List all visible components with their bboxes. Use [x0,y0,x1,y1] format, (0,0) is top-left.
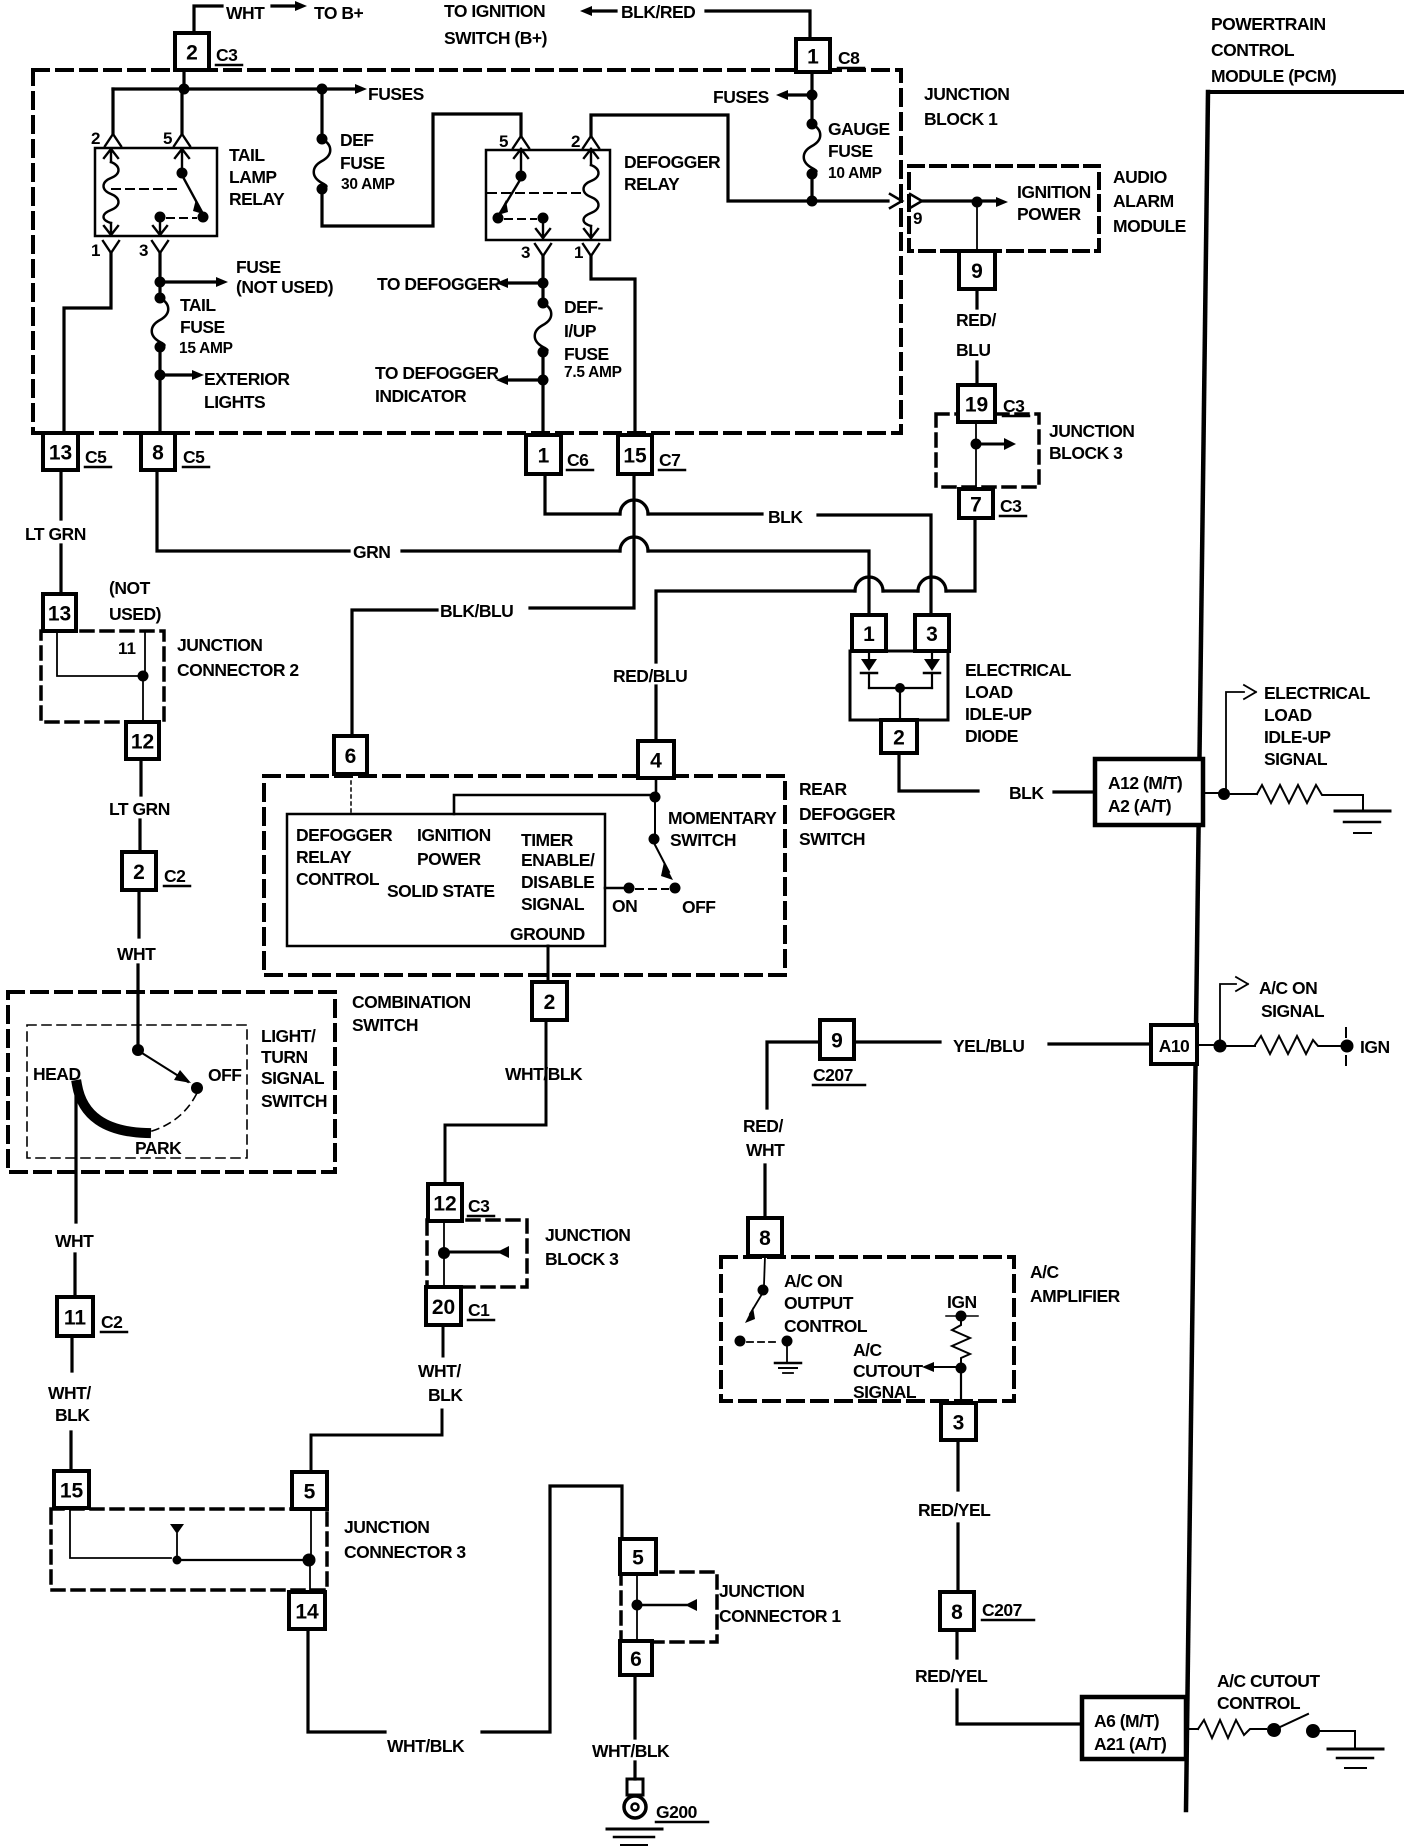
svg-text:JUNCTION: JUNCTION [1049,421,1134,441]
arrowhead BLK/RED to ignition switch [580,6,592,16]
diode 1 bar [861,672,877,675]
svg-text:BLU: BLU [956,340,990,360]
box 12 C3 [428,1184,462,1221]
a/c output pivot dot [758,1285,769,1296]
svg-text:2: 2 [186,42,198,65]
svg-text:C3: C3 [468,1196,490,1216]
diode 2 triangle [924,659,940,671]
svg-text:2: 2 [91,129,100,148]
ground idle-up bar3 [1354,832,1371,834]
svg-text:20: 20 [432,1296,455,1319]
a/c output switch arm [750,1294,762,1314]
svg-text:JUNCTION: JUNCTION [545,1225,630,1245]
arrowhead junction connector 1 [685,1599,697,1611]
diode pin 3 [915,615,949,651]
wire box2C3 drop [182,70,185,89]
diode 2 bar [924,672,940,675]
svg-text:1: 1 [574,243,583,262]
svg-text:ENABLE/: ENABLE/ [521,850,595,870]
svg-text:OUTPUT: OUTPUT [784,1293,854,1313]
defogger relay pin3 chevron [535,244,551,256]
rear defogger switch solid state box [287,814,605,946]
svg-text:FUSE: FUSE [564,344,609,364]
G200 ground bar2 [614,1836,654,1839]
wire BLK/BLU from 15C7 to box6 [352,474,634,736]
box 13 C5 [43,433,78,470]
junction block 3 lower dashed box [427,1220,527,1287]
svg-text:8: 8 [152,442,164,465]
svg-text:LOAD: LOAD [965,682,1013,702]
svg-text:CONTROL: CONTROL [1217,1693,1301,1713]
combination switch dashed box [8,992,335,1172]
rear defogger switch dashed box [264,776,785,975]
svg-text:POWER: POWER [1017,204,1081,224]
box 3 a/c amp [941,1403,976,1440]
node dot diode common [895,683,905,693]
svg-text:RELAY: RELAY [624,174,680,194]
svg-text:DEF: DEF [340,130,374,150]
box 15 JC3 [54,1471,89,1508]
defogger relay coil [584,165,599,226]
box 6 defogger switch [334,736,367,774]
svg-text:DEF-: DEF- [564,297,604,317]
wire a/c on arrow riser [1220,984,1236,1046]
IGN contact dot [1341,1040,1354,1053]
svg-text:FUSES: FUSES [713,87,769,107]
resistor idle-up signal [1257,785,1363,811]
svg-text:BLK: BLK [768,507,803,527]
wire box4 top segment [654,686,657,741]
wire RED/BLU middle [883,589,918,592]
box 12 JC2 [126,722,159,759]
junction block 3 lower internal wire [443,1221,445,1287]
svg-text:LT GRN: LT GRN [25,524,86,544]
svg-text:COMBINATION: COMBINATION [352,992,471,1012]
wire RED/BLU from box4 riser [656,591,855,662]
svg-text:SWITCH: SWITCH [261,1091,327,1111]
wire 8C207 to A6 RED/YEL [957,1630,1082,1724]
a/c output arm arrowhead [745,1307,755,1323]
ground idle-up bar2 [1344,821,1380,824]
svg-text:DEFOGGER: DEFOGGER [799,804,896,824]
svg-text:A/C ON: A/C ON [784,1271,842,1291]
IGN feed dot [956,1311,967,1322]
hump GRN over 15C7 wire [620,537,648,551]
wire defogger relay pin3 to 1C6 [541,256,544,435]
svg-text:14: 14 [295,1601,319,1624]
junction connector 1 dot [632,1600,643,1611]
wire BLK right to diode pin3 [648,514,931,615]
svg-text:RED/YEL: RED/YEL [915,1666,988,1686]
svg-text:5: 5 [304,1481,316,1504]
junction connector 2 dashed box [41,631,164,722]
svg-text:MODULE: MODULE [1113,216,1186,236]
svg-text:7.5 AMP: 7.5 AMP [564,364,622,381]
combination switch wiper arm [142,1053,188,1082]
svg-text:TO B+: TO B+ [314,3,363,23]
defogger relay arm arrowhead [498,200,508,215]
wire arrow to defogger indicator [508,378,543,381]
svg-text:TURN: TURN [261,1047,308,1067]
svg-text:LIGHTS: LIGHTS [204,392,265,412]
svg-text:IDLE-UP: IDLE-UP [1264,727,1331,747]
svg-text:DIODE: DIODE [965,726,1018,746]
a/c output ground bar2 [779,1367,797,1369]
svg-text:WHT: WHT [117,944,156,964]
junction block 3 upper arrow [976,443,1004,446]
momentary switch arm [654,843,669,872]
svg-text:IGNITION: IGNITION [1017,182,1091,202]
svg-text:CONNECTOR 1: CONNECTOR 1 [719,1606,841,1626]
svg-text:A/C: A/C [853,1340,883,1360]
box 4 defogger switch [638,741,674,778]
svg-text:POWER: POWER [417,849,481,869]
wire def fuse to defogger relay pin5 [322,114,521,226]
svg-text:C1: C1 [468,1300,490,1320]
svg-text:5: 5 [632,1547,644,1570]
off contact dot [191,1082,203,1094]
tail relay pin2 chevron [105,134,121,146]
tail relay switch arm [183,177,202,212]
svg-text:A/C ON: A/C ON [1259,978,1317,998]
svg-text:WHT/BLK: WHT/BLK [387,1736,465,1756]
G200 inner dot [632,1804,639,1811]
box 9 audio [959,251,995,289]
wire ignition power feed [454,795,655,814]
box 7 C3 [959,489,993,518]
svg-text:A12 (M/T): A12 (M/T) [1108,773,1182,793]
wire timer signal to on contact [605,887,623,890]
a/c cutout node dot [956,1363,967,1374]
wire tail relay pin3 to 8C5 [158,253,161,433]
wire C8 to gauge fuse [810,72,813,124]
svg-text:WHT/: WHT/ [418,1361,461,1381]
wire cutout control to ground [1319,1731,1355,1748]
box 2 C2 [122,852,156,890]
junction connector 3 small dot [173,1556,182,1565]
svg-text:JUNCTION: JUNCTION [177,635,262,655]
arrowhead a/c on signal [1236,977,1248,991]
svg-text:LAMP: LAMP [229,167,277,187]
a/c output dashed link [747,1341,780,1343]
svg-text:MOMENTARY: MOMENTARY [668,808,777,828]
a/c output left contact dot [735,1336,746,1347]
cutout ground bar3 [1345,1767,1366,1769]
node dot to defogger tap [538,278,549,289]
svg-text:13: 13 [49,442,72,465]
svg-text:C2: C2 [101,1312,123,1332]
junction connector 3 tap triangle [170,1524,184,1534]
wire diode common to pin2 [899,688,901,720]
resistor a/c on signal [1255,1036,1340,1054]
tail relay down arrow to pin3 [153,222,167,235]
svg-text:9: 9 [831,1030,843,1053]
svg-text:BLK: BLK [1009,783,1044,803]
wire 2C2 to combination switch WHT [138,890,139,1048]
junction connector 2 left stem [57,631,138,676]
wire GRN from 8C5 [157,470,620,551]
svg-text:19: 19 [965,394,988,417]
box 2 C3 [175,33,209,70]
a/c output right contact dot [782,1336,793,1347]
svg-text:SWITCH (B+): SWITCH (B+) [444,28,547,48]
hump BLK over 15C7 wire [620,500,648,514]
svg-text:MODULE (PCM): MODULE (PCM) [1211,66,1336,86]
svg-text:IGNITION: IGNITION [417,825,491,845]
arrowhead junction block 3 lower [497,1246,509,1258]
defogger relay arm contact dot [493,213,504,224]
wiper arm arrowhead [174,1070,191,1083]
svg-text:C3: C3 [216,45,238,65]
svg-text:5: 5 [499,132,508,151]
diode 2 lower lead [931,673,933,688]
G200 ring [624,1796,646,1818]
svg-text:C5: C5 [85,447,107,467]
arrowhead ignition power [996,197,1008,207]
wire 9C207 to RED/WHT to box8 [765,1042,820,1218]
node dot A12 output [1218,788,1230,800]
hump RED/BLU over grn drop [855,577,883,591]
svg-text:CUTOUT: CUTOUT [853,1361,923,1381]
svg-text:8: 8 [951,1601,963,1624]
a/c output ground bar3 [783,1372,793,1374]
wire def fuse drop [320,89,323,139]
svg-text:SWITCH: SWITCH [799,829,865,849]
arrowhead to defogger [496,278,508,288]
svg-text:C3: C3 [1003,396,1025,416]
wire GRN right to diode pin1 [648,551,869,615]
gauge fuse element [804,124,821,174]
svg-text:C207: C207 [813,1065,853,1085]
tail relay arm arrowhead [193,199,203,214]
svg-text:INDICATOR: INDICATOR [375,386,467,406]
svg-text:BLOCK 3: BLOCK 3 [545,1249,619,1269]
tail fuse element [152,298,169,347]
wire diode pin2 to A12 BLK [899,753,1095,792]
wire A6 to cutout resistor [1186,1728,1198,1730]
node dot def iup fuse top [538,298,549,309]
svg-text:A6 (M/T): A6 (M/T) [1094,1711,1159,1731]
node dot fuses tap [807,90,818,101]
svg-text:IDLE-UP: IDLE-UP [965,704,1032,724]
svg-text:RED/: RED/ [743,1116,783,1136]
wire A12 to resistor [1203,793,1257,794]
svg-text:IGN: IGN [947,1292,977,1312]
defogger relay coil down arrow [584,226,598,238]
node dot tail fuse bottom [155,342,166,353]
junction block 1 dashed box [33,70,901,433]
wire ground from solid state [547,946,550,982]
svg-text:2: 2 [133,861,145,884]
svg-text:SIGNAL: SIGNAL [1264,749,1328,769]
a/c amplifier dashed box [721,1257,1014,1401]
svg-text:3: 3 [953,1412,965,1435]
svg-text:(NOT: (NOT [109,578,151,598]
box 5 JC3 [292,1472,327,1509]
wire box2 comb to 12C3 [445,1020,546,1184]
svg-text:POWERTRAIN: POWERTRAIN [1211,14,1326,34]
defogger relay pivot dot [516,171,527,182]
wire arrow to FUSES right [786,93,812,96]
svg-text:A21 (A/T): A21 (A/T) [1094,1734,1166,1754]
arrowhead to B+ [295,1,307,11]
svg-text:13: 13 [48,603,71,626]
svg-text:JUNCTION: JUNCTION [719,1581,804,1601]
node dot def fuse top [317,134,328,145]
box 15 C7 [618,435,652,474]
node dot bus at C3 [179,84,190,95]
svg-text:C5: C5 [183,447,205,467]
junction connector 1 box5 stem [636,1574,638,1601]
svg-text:WHT/BLK: WHT/BLK [592,1741,670,1761]
wire A10 to resistor [1197,1045,1255,1046]
a/c output ground lead [786,1346,788,1362]
node dot tail fuse top [155,293,166,304]
defogger relay down arrow to pin3 [536,222,550,238]
light/turn signal switch inner dashed box [27,1025,247,1158]
node dot junction block 3 upper [971,439,982,450]
wire box4 into switch [655,778,658,795]
svg-text:ALARM: ALARM [1113,191,1174,211]
box 11 C2 [57,1297,93,1336]
wire head contact down WHT [75,1092,76,1297]
dashed arc park to off [152,1093,197,1131]
wire 20C1 down WHT/BLK [311,1325,443,1471]
svg-text:11: 11 [118,639,136,658]
defogger relay coil up arrow [584,149,598,165]
defogger relay pin2 chevron [583,136,599,148]
svg-text:RED/YEL: RED/YEL [918,1500,991,1520]
diode 2 lead [931,651,933,659]
a/c cutout arrow [934,1366,961,1368]
wire BLK/RED to C8 [706,11,810,39]
svg-text:11: 11 [64,1307,87,1330]
wire box8 into a/c amp [764,1256,765,1285]
svg-text:TO IGNITION: TO IGNITION [444,1,545,21]
wire arrow to B+ [272,4,295,7]
wire YEL/BLU row left [854,1042,1151,1044]
G200 ground bar1 [607,1828,662,1831]
junction connector 1 dashed box [621,1572,717,1642]
svg-text:CONTROL: CONTROL [296,869,380,889]
cutout control contact dot 2 [1306,1724,1320,1738]
diode pin 2 [881,720,917,753]
wire arrow to defogger [508,281,543,284]
wire ignition power [922,199,996,202]
svg-text:DEFOGGER: DEFOGGER [296,825,393,845]
svg-text:12: 12 [433,1193,456,1216]
svg-text:SIGNAL: SIGNAL [261,1068,325,1088]
arrowhead idle-up signal [1244,685,1256,699]
svg-text:2: 2 [893,727,905,750]
arrowhead FUSES left [355,84,367,94]
wire WHT to B+ riser [194,6,222,33]
wire momentary drop [654,797,656,834]
diode common wire [869,687,932,689]
chevron audio module pin 9 [910,194,922,208]
svg-text:30 AMP: 30 AMP [341,176,395,193]
junction connector 2 pin11 stem [144,633,146,671]
wire box3 to 8C207 RED/YEL [956,1440,959,1592]
node dot def iup fuse bottom [538,347,549,358]
def fuse element [314,139,331,189]
node dot gauge fuse bottom [807,169,818,180]
svg-text:RED/BLU: RED/BLU [613,666,687,686]
wire box6 to solid state [350,774,352,814]
svg-text:7: 7 [970,494,982,517]
svg-text:C3: C3 [1000,496,1022,516]
svg-text:IGN: IGN [1360,1037,1390,1057]
node dot exterior lights tap [155,370,166,381]
def i/up fuse element [535,303,552,352]
arrowhead fuse not used [216,277,228,287]
tail relay arm contact dot [198,212,209,223]
momentary on contact dot [624,883,635,894]
svg-text:FUSE: FUSE [828,141,873,161]
junction block 3 lower arrow [444,1251,499,1254]
svg-text:1: 1 [807,46,819,69]
svg-text:10 AMP: 10 AMP [828,165,882,182]
junction connector 3 tap stem [176,1534,178,1556]
svg-text:LOAD: LOAD [1264,705,1312,725]
a/c output ground bar1 [775,1362,801,1365]
box 8 C5 [141,433,175,470]
svg-text:8: 8 [759,1227,771,1250]
svg-text:A/C: A/C [1030,1262,1060,1282]
box 20 C1 [426,1287,461,1325]
A10 connector box [1151,1025,1197,1064]
momentary off contact dot [670,883,681,894]
svg-text:RED/: RED/ [956,310,996,330]
G200 bolt square [627,1779,643,1795]
node dot junction block 3 lower [438,1247,450,1259]
audio alarm module dashed box [909,166,1099,251]
svg-text:ELECTRICAL: ELECTRICAL [965,660,1072,680]
wire tail relay pin2 riser [111,89,114,134]
svg-text:SWITCH: SWITCH [670,830,736,850]
svg-text:SOLID STATE: SOLID STATE [387,881,495,901]
box 19 C3 [958,385,995,422]
svg-text:OFF: OFF [208,1065,242,1085]
tail relay coil up arrow [104,149,118,162]
svg-text:1: 1 [91,241,100,260]
svg-text:SWITCH: SWITCH [352,1015,418,1035]
resistor a/c cutout vertical [952,1316,970,1362]
junction connector 1 arrow [637,1604,686,1607]
defogger relay contact up arrow [514,149,528,170]
junction connector 2 lower stem [142,681,144,722]
svg-text:FUSE: FUSE [340,153,385,173]
G200 ground bar3 [621,1844,647,1846]
svg-text:FUSE: FUSE [236,257,281,277]
junction connector 3 left internal wire [70,1508,171,1558]
arrowhead junction block 3 upper [1004,438,1016,450]
wire tail relay pin1 to 13C5 [64,253,111,433]
tail relay coil down arrow [104,223,118,235]
svg-text:9: 9 [913,209,922,228]
node dot ignition power junction [807,196,818,207]
svg-text:DISABLE: DISABLE [521,872,594,892]
wire arrow exterior lights [160,373,192,376]
box 8 C207 lower [940,1592,974,1630]
svg-text:EXTERIOR: EXTERIOR [204,369,290,389]
svg-text:ON: ON [612,896,637,916]
svg-text:15 AMP: 15 AMP [179,340,233,357]
wire box6 to G200 WHT/BLK [633,1675,636,1779]
arrowhead FUSES right [776,90,788,100]
tail relay contact dashed link [167,217,196,219]
svg-text:2: 2 [571,132,580,151]
